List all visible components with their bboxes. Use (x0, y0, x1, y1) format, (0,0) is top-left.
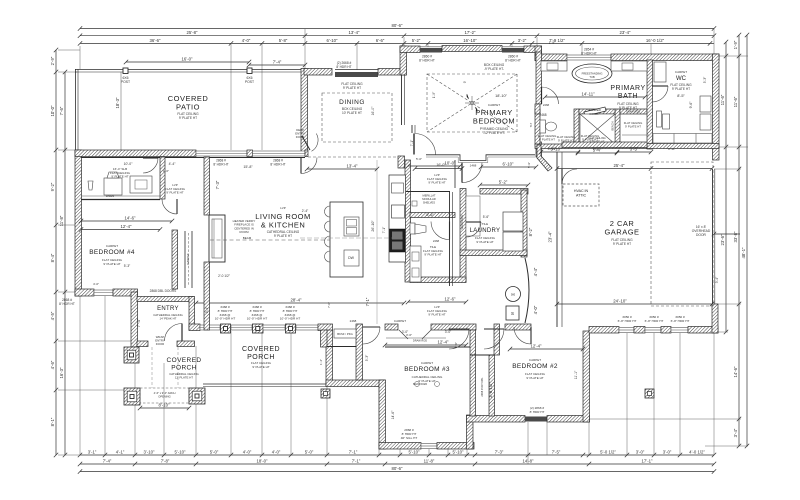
svg-text:DW: DW (348, 256, 355, 260)
linen shelf line (622, 134, 649, 136)
svg-text:10’-0”: 10’-0” (124, 162, 133, 166)
dim bottom level2 (78, 462, 716, 466)
svg-text:9’-6”: 9’-6” (689, 102, 693, 109)
garage south window 2 (645, 328, 661, 333)
dining north wall segment 2 (378, 69, 406, 76)
porch wall post 3 (286, 324, 296, 333)
west outer wall (75, 150, 82, 296)
laundry north wall (480, 189, 528, 195)
svg-text:FLAT CEILING9’ PLATE HT: FLAT CEILING9’ PLATE HT (624, 121, 643, 129)
bedroom4 closet door dashed (188, 233, 190, 286)
svg-text:7’-8”: 7’-8” (161, 459, 170, 464)
extension lines top (80, 29, 714, 150)
garage porch post (645, 389, 654, 398)
svg-text:FLAT CEILING9’ PLATE HT: FLAT CEILING9’ PLATE HT (251, 361, 272, 369)
svg-text:5’-2”: 5’-2” (412, 38, 421, 43)
bedroom4 closet wall (184, 231, 186, 288)
beam dashed living (210, 239, 330, 241)
primary bedroom south wall thin with notch (426, 155, 535, 163)
dining kitchen dashed break (308, 156, 403, 158)
interior wall under patio (81, 157, 305, 159)
curved garage wall (525, 258, 529, 323)
entry porch post 3 (189, 388, 205, 404)
pantry south wall (410, 213, 455, 218)
dim left outer (54, 48, 58, 457)
arch opening dashed left (140, 388, 189, 403)
door wc (652, 86, 668, 102)
svg-text:14’-6”: 14’-6” (391, 411, 395, 420)
dim bath bottom 5-10 (539, 150, 580, 154)
deep entry door leaf (302, 136, 310, 150)
closet double door leaves (399, 330, 431, 339)
svg-text:7’-0”: 7’-0” (327, 302, 331, 308)
svg-text:FLAT CEILING9’ PLATE HT: FLAT CEILING9’ PLATE HT (525, 372, 546, 380)
dim kitchen 10-0 (406, 164, 462, 168)
svg-text:2 CARGARAGE: 2 CARGARAGE (604, 219, 639, 236)
dim top level2 (78, 34, 716, 38)
svg-text:CARPET: CARPET (675, 70, 687, 74)
water softener (506, 306, 519, 320)
extension lines bottom (80, 296, 714, 464)
bed3 closet north wall seg1 (385, 324, 398, 330)
northwest wall mullion (247, 150, 253, 157)
covered patio top edge a (75, 69, 305, 71)
svg-text:4’-0”: 4’-0” (243, 450, 252, 455)
dim kitchen 13-4 (305, 167, 379, 171)
svg-text:CARPET: CARPET (394, 319, 406, 323)
svg-text:5’-3”: 5’-3” (703, 77, 707, 83)
dim porch 28-4 (194, 301, 406, 305)
door bedroom3 (449, 329, 469, 349)
svg-text:4’-0”: 4’-0” (93, 282, 99, 286)
svg-text:5’-8”: 5’-8” (279, 38, 288, 43)
mud lamp (88, 181, 93, 190)
dining north wall segment 1 (304, 69, 332, 76)
pantry west wall (405, 160, 411, 282)
bedroom4 south wall seg2 (113, 289, 138, 296)
svg-text:5’-10”: 5’-10” (409, 450, 421, 455)
svg-text:PYRAMID CEILING-12’ PLATE HT-: PYRAMID CEILING-12’ PLATE HT- (480, 127, 509, 135)
svg-text:2468: 2468 (539, 113, 546, 117)
closet shelf line (386, 337, 446, 339)
small window marks bedroom3 floor (415, 382, 440, 387)
linen north wall (620, 109, 647, 114)
garage west wall b (561, 152, 563, 327)
svg-text:FLAT CEILING9’ PLATE HT: FLAT CEILING9’ PLATE HT (581, 134, 600, 142)
porch small post (321, 389, 330, 398)
dim arch 8-10 (138, 406, 191, 410)
svg-text:18’-10”: 18’-10” (495, 94, 508, 98)
svg-text:PRIMARYBEDROOM: PRIMARYBEDROOM (473, 108, 515, 125)
svg-text:10’-0”: 10’-0” (50, 105, 55, 117)
dim right 1 (724, 40, 728, 334)
nook bottom (327, 346, 356, 348)
bed3 closet north wall seg2 (431, 324, 476, 330)
dining box ceiling dashed (322, 93, 392, 142)
porch east wall (326, 330, 333, 386)
svg-text:DINING: DINING (339, 99, 365, 106)
garage overhead door line b (714, 169, 716, 304)
svg-text:7’-6”: 7’-6” (59, 106, 64, 115)
primary bedroom north window 1 dark (420, 48, 442, 53)
svg-text:H: H (511, 292, 514, 297)
mud nook south wall (81, 199, 160, 201)
svg-text:14’-11”: 14’-11” (581, 92, 595, 97)
svg-text:3’-2”: 3’-2” (518, 38, 527, 43)
door bedroom2 (484, 329, 504, 349)
toilet room north stub (535, 104, 540, 114)
mud vanity (104, 178, 122, 195)
porch north wall east end (318, 324, 333, 331)
kitchen back counter (389, 175, 406, 262)
garage overhead door line a (712, 169, 714, 304)
porch wall post 1 (221, 324, 231, 333)
dim hall 12-6 (406, 300, 468, 304)
svg-text:6’-10”: 6’-10” (327, 38, 339, 43)
svg-text:23’-4”: 23’-4” (548, 231, 553, 243)
svg-text:LIVING ROOM& KITCHEN: LIVING ROOM& KITCHEN (255, 212, 311, 229)
fireplace (209, 215, 225, 262)
hall nook west wall (321, 330, 328, 347)
door primary bath (542, 87, 559, 104)
dim bath bottom 3-5 (615, 150, 653, 154)
svg-text:8’-5”: 8’-5” (677, 94, 685, 98)
entry east wall (189, 297, 195, 331)
entry south-east wall (177, 341, 195, 347)
patio post 1 (123, 68, 128, 74)
bedroom2 east wall (583, 331, 590, 422)
toilet room west wall (535, 109, 540, 145)
svg-text:7’-1”: 7’-1” (349, 450, 358, 455)
svg-text:WRAPENTRYDOOR: WRAPENTRYDOOR (155, 335, 165, 346)
dim patio 7-4 (247, 63, 307, 67)
svg-text:17’-1”: 17’-1” (642, 459, 654, 464)
svg-text:25’-4”: 25’-4” (614, 163, 626, 168)
fridge (392, 205, 405, 218)
door patio living (301, 158, 317, 174)
wc west wall (647, 60, 653, 149)
svg-text:13’-4”: 13’-4” (349, 30, 361, 35)
svg-text:MERILLATMODULARSHELVES: MERILLATMODULARSHELVES (422, 194, 436, 205)
svg-text:3’-5”: 3’-5” (630, 147, 639, 152)
dim garage 24-10 (555, 302, 714, 306)
svg-text:8’-1”: 8’-1” (50, 417, 55, 426)
living ridge line (376, 160, 378, 324)
living west wall upper (204, 157, 210, 215)
svg-text:5’-2”: 5’-2” (499, 180, 508, 185)
porch window 1 (200, 325, 220, 330)
door mud nook (143, 158, 158, 173)
garage southeast corner wall (712, 304, 718, 333)
svg-text:7’-4”: 7’-4” (103, 459, 112, 464)
svg-text:26’-10”: 26’-10” (371, 220, 375, 232)
svg-text:ENTRY: ENTRY (157, 306, 179, 312)
bedroom3 wing shoulder wall (326, 380, 385, 387)
svg-text:FLAT CEILING9’ PLATE HT: FLAT CEILING9’ PLATE HT (670, 83, 692, 91)
bedroom3 south wall seg2 (437, 443, 474, 450)
svg-text:16’-10”: 16’-10” (463, 38, 477, 43)
svg-text:CARPET: CARPET (106, 244, 118, 248)
svg-text:3’-0”: 3’-0” (445, 330, 451, 334)
svg-text:5’-6”: 5’-6” (483, 215, 489, 219)
svg-text:FLAT CEILING9’ PLATE HT: FLAT CEILING9’ PLATE HT (341, 82, 363, 90)
dim right 2 (737, 33, 741, 448)
svg-text:25’-8”: 25’-8” (187, 30, 199, 35)
svg-text:24’-10”: 24’-10” (613, 299, 627, 304)
primary hall west wall a2 (411, 125, 413, 133)
entry north wall (137, 297, 194, 302)
dim laundry 5-2 (478, 183, 530, 187)
svg-text:CARPET: CARPET (488, 103, 500, 107)
svg-text:18’-3”: 18’-3” (115, 97, 120, 109)
svg-text:12’-4”: 12’-4” (531, 344, 543, 349)
hall bath vanity (410, 246, 421, 282)
svg-text:4’-1”: 4’-1” (116, 450, 125, 455)
range (390, 229, 406, 252)
garage wing south wall seg4 (688, 327, 718, 334)
bed2 closet north (470, 354, 494, 356)
bedroom4 east wall (172, 230, 178, 289)
svg-text:7’-4”: 7’-4” (273, 60, 282, 65)
svg-text:16’-0”: 16’-0” (182, 57, 194, 62)
northwest window 2 (253, 151, 306, 156)
svg-text:16’-3”: 16’-3” (59, 367, 64, 379)
dim right 3 (745, 33, 749, 448)
laundry counter (466, 196, 480, 236)
svg-text:7’-3”: 7’-3” (215, 180, 220, 189)
counter sink upper (392, 183, 404, 193)
svg-text:2468: 2468 (433, 239, 440, 243)
svg-text:3’-8 1/2”: 3’-8 1/2” (488, 382, 493, 398)
svg-text:5’-0”: 5’-0” (210, 450, 219, 455)
svg-text:9’-2”: 9’-2” (50, 182, 55, 191)
svg-text:5’-3”: 5’-3” (365, 355, 369, 361)
primary bedroom north wall seg3 (524, 46, 542, 53)
svg-text:6’-6”: 6’-6” (376, 38, 385, 43)
water heater (506, 287, 521, 302)
svg-text:4’-5”: 4’-5” (50, 311, 55, 320)
svg-text:LAUNDRY: LAUNDRY (470, 228, 501, 234)
svg-text:80’-6”: 80’-6” (392, 466, 404, 471)
svg-text:5’-10”: 5’-10” (548, 147, 557, 151)
svg-text:28’-4”: 28’-4” (291, 298, 303, 303)
svg-text:CARPET: CARPET (529, 358, 541, 362)
primary hall west wall b2 (414, 125, 416, 133)
extension lines right (589, 56, 748, 446)
svg-text:16’-0”: 16’-0” (436, 163, 446, 167)
bedroom3 west wall (379, 380, 386, 449)
svg-text:FLAT CEILING9’ PLATE HT: FLAT CEILING9’ PLATE HT (102, 258, 123, 266)
mud nook counter (81, 195, 160, 197)
dining north window dark band (335, 72, 378, 77)
north wall dining west jamb (301, 69, 308, 153)
door bed2 inner (514, 327, 531, 344)
svg-text:3’-4”: 3’-4” (733, 428, 738, 437)
dim left inner (63, 70, 67, 457)
svg-text:18’-0”: 18’-0” (257, 459, 269, 464)
svg-text:BEDROOM #3: BEDROOM #3 (404, 366, 450, 373)
svg-text:TILE: TILE (482, 222, 488, 226)
dim bedroom4 14-6 (79, 219, 174, 223)
dim patio 16-0 (124, 60, 251, 64)
bedroom2 south window dark band (525, 417, 547, 422)
svg-text:5’-0”: 5’-0” (416, 157, 422, 161)
garage wing south wall seg2 (634, 327, 645, 334)
svg-text:9’: 9’ (463, 80, 467, 83)
bedroom3 south wall seg1 (379, 443, 421, 450)
svg-text:S: S (511, 311, 514, 316)
dim top level3 (78, 41, 714, 45)
dim bed3 width (383, 343, 468, 347)
bedroom4 closet back wall (191, 231, 193, 288)
svg-text:11’-6”: 11’-6” (720, 94, 725, 105)
bed2 west wall piece (494, 324, 500, 355)
mud cabinet (130, 176, 152, 193)
svg-text:4’-6”: 4’-6” (50, 360, 55, 369)
svg-text:1’-9”: 1’-9” (549, 41, 555, 45)
svg-text:DRAW ROD: DRAW ROD (626, 110, 640, 114)
covered patio left edge b (77, 69, 79, 152)
svg-text:36’-6”: 36’-6” (150, 38, 162, 43)
wall corner block hall (398, 156, 405, 168)
svg-text:BKSF / PKG: BKSF / PKG (337, 332, 353, 336)
primary hall west wall b (404, 75, 406, 125)
door primary bedroom entry (415, 134, 436, 155)
dim bath bottom 5-4 (576, 151, 619, 155)
svg-text:15’-8”: 15’-8” (243, 165, 253, 169)
bath vanity left (541, 61, 567, 71)
bedroom2 south wall seg1 (467, 416, 526, 423)
svg-text:2868 DBL DOORS: 2868 DBL DOORS (150, 289, 177, 293)
covered patio top edge b (75, 71, 305, 73)
svg-text:16’-0 1/2”: 16’-0 1/2” (646, 38, 665, 43)
dim primary 16-0 (413, 166, 464, 170)
door bedroom4 (162, 199, 177, 214)
hall east wall (356, 324, 363, 380)
pantry east wall a (449, 192, 451, 286)
svg-text:11’-6”: 11’-6” (733, 96, 738, 107)
svg-text:BEDROOM #2: BEDROOM #2 (512, 363, 558, 370)
mud room east wall (160, 157, 165, 199)
bed23 entry wall (505, 324, 531, 330)
kitchen island (330, 202, 363, 277)
entry south-west stub (137, 341, 148, 347)
laundry east wall (521, 190, 527, 257)
svg-text:4’-4”: 4’-4” (533, 267, 538, 276)
primary hall west wall a (401, 75, 403, 125)
svg-text:CARPET: CARPET (186, 253, 190, 265)
pantry north wall (406, 191, 450, 193)
svg-text:5’-3”: 5’-3” (124, 264, 130, 268)
door entry (165, 324, 183, 342)
kitchen center dashed (300, 237, 410, 239)
porch window 3 (263, 325, 285, 330)
svg-text:11’-8”: 11’-8” (59, 215, 64, 226)
primary bedroom north window 2 dark (502, 48, 524, 53)
svg-text:11’-1”: 11’-1” (574, 371, 578, 379)
svg-text:BENCH: BENCH (611, 121, 615, 130)
wc bench (654, 62, 666, 82)
toilet primary (540, 120, 546, 133)
wc closet shelf row (653, 134, 712, 144)
svg-text:1’-9”: 1’-9” (733, 40, 738, 49)
svg-text:3’-4”: 3’-4” (715, 277, 719, 283)
garage south window 1 (619, 328, 634, 333)
svg-text:1’-6”: 1’-6” (163, 169, 169, 173)
svg-text:14’-6”: 14’-6” (125, 216, 137, 221)
svg-text:5’-6”: 5’-6” (426, 213, 434, 217)
pantry shelf square (412, 201, 417, 206)
half bath toilet (410, 223, 415, 234)
bedroom2 south wall seg2 (547, 416, 590, 423)
svg-text:(2) 2868 #8’ HDR HT: (2) 2868 #8’ HDR HT (530, 406, 545, 414)
primary bedroom box ceiling dashed (427, 74, 517, 132)
svg-text:FLAT CEILING9’ PLATE HT: FLAT CEILING9’ PLATE HT (557, 135, 576, 143)
svg-text:5’-0 1/2”: 5’-0 1/2” (600, 450, 616, 455)
svg-text:DEEPENTRYDOOR: DEEPENTRYDOOR (295, 128, 305, 139)
dim overhead (712, 232, 740, 236)
entry west wall (131, 292, 138, 347)
laundry west wall (460, 189, 466, 283)
svg-text:2’-0 1/2”: 2’-0 1/2” (218, 274, 230, 278)
svg-text:3’-10”: 3’-10” (144, 450, 156, 455)
mud hall angled wall (537, 145, 552, 171)
svg-text:23’-4”: 23’-4” (620, 30, 632, 35)
svg-text:12’-6”: 12’-6” (445, 297, 457, 302)
svg-text:FLAT CEILING9’ PLATE HT: FLAT CEILING9’ PLATE HT (538, 134, 557, 142)
svg-text:13’-4”: 13’-4” (347, 164, 359, 169)
svg-text:3’-0”: 3’-0” (663, 450, 672, 455)
primary bedroom north wall seg1 (400, 46, 420, 53)
svg-text:FLAT CEILING9’ PLATE HT: FLAT CEILING9’ PLATE HT (177, 112, 199, 120)
svg-text:2468 PCKT DBL: 2468 PCKT DBL (480, 377, 484, 397)
closet jog wall (467, 415, 474, 449)
bath wing north window 2854 (567, 55, 611, 60)
svg-text:BEAM: BEAM (243, 236, 252, 240)
porch south edge b (203, 386, 326, 388)
svg-text:TLT: TLT (529, 122, 533, 127)
svg-text:1’-4”: 1’-4” (319, 359, 323, 365)
pantry east wall b (452, 192, 454, 286)
garage north wall (562, 142, 647, 148)
svg-text:5’-4”: 5’-4” (593, 148, 602, 153)
svg-text:8’-2”: 8’-2” (528, 227, 533, 236)
svg-text:12’-4”: 12’-4” (121, 224, 133, 229)
svg-text:8’-10”: 8’-10” (159, 403, 171, 408)
svg-text:5’-10”: 5’-10” (453, 450, 465, 455)
svg-text:WARDROBE: WARDROBE (461, 214, 464, 229)
svg-text:1’-9”: 1’-9” (432, 92, 436, 98)
svg-text:10’-0”: 10’-0” (445, 161, 457, 166)
svg-text:COVEREDPORCH: COVEREDPORCH (242, 346, 280, 361)
svg-text:8’-4”: 8’-4” (50, 253, 55, 262)
bath wing north wall seg2 (611, 54, 719, 61)
svg-text:14’-6”: 14’-6” (733, 366, 738, 378)
svg-text:7’-1”: 7’-1” (352, 459, 361, 464)
svg-text:7’-4”: 7’-4” (136, 318, 141, 327)
dim bottom level3 (78, 469, 716, 473)
entry porch post 2 (124, 388, 140, 405)
svg-text:(2) 2668 #8’ HDR HT: (2) 2668 #8’ HDR HT (336, 61, 351, 69)
northwest wall below patio seg1 (75, 150, 196, 157)
bed3 closet bottom (385, 346, 470, 348)
door primary hall notch (462, 163, 482, 183)
svg-text:7’-1”: 7’-1” (365, 297, 370, 306)
door garage hall (562, 169, 577, 184)
island stool scallops (325, 206, 331, 262)
svg-text:16’-0”: 16’-0” (371, 107, 375, 116)
svg-text:1468: 1468 (470, 164, 477, 168)
